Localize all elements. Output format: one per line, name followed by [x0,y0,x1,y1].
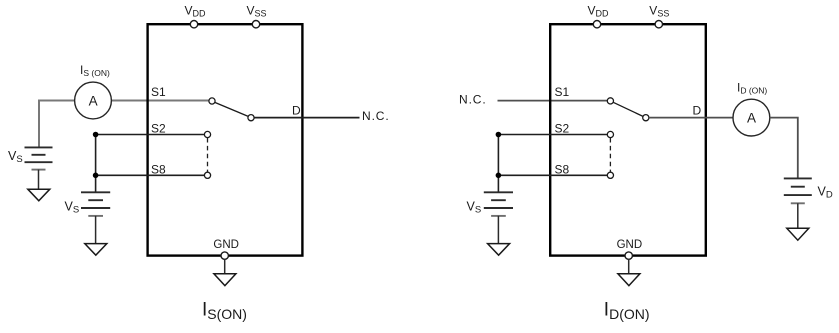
junction dot S8 (right) [496,173,502,179]
dashed link S2-S8 (left) [207,138,209,172]
pin circle S8 (right) [607,172,613,178]
wire ammeter-right to S1 switch pole [111,100,209,102]
svg-text:S1: S1 [151,85,166,99]
svg-text:D: D [292,103,301,117]
ground (below VS3) [488,244,510,256]
junction dot S2 (left) [93,132,99,138]
svg-text:S2: S2 [555,122,570,136]
svg-text:A: A [89,94,98,109]
wire S8 (left) [96,174,205,176]
pin circle S2 (right) [607,131,613,137]
wire GND pin to ground (right) [628,259,630,273]
ground (below VD) [787,228,809,240]
battery VS1 [25,147,53,189]
pin VSS (right) [655,21,662,28]
pin GND (right) [625,252,632,259]
bus wire junctions to VS2 (left) [95,135,97,193]
ground (below GND pin, left) [214,274,236,286]
pin VDD (left) [190,21,197,28]
wire ammeter-left to VS battery (left) [39,101,75,148]
svg-text:N.C.: N.C. [459,93,487,107]
switch SW2 throw circle [643,115,649,121]
battery VS2 (left) [81,192,110,243]
ground (below GND pin, right) [618,274,640,286]
pin VDD (right) [593,21,600,28]
wire GND pin to ground (left) [224,259,226,273]
wire S2 (right) [498,134,607,136]
pin circle S8 (left) [204,172,210,178]
pin GND (left) [221,252,228,259]
switch SW2 pole circle [607,98,613,104]
DUT box U1 (right) [550,24,706,255]
switch SW1 blade [215,102,248,116]
svg-text:A: A [747,111,756,126]
svg-text:S2: S2 [151,122,166,136]
svg-text:S8: S8 [151,163,166,177]
dashed link S2-S8 (right) [609,138,611,172]
junction dot S8 (left) [93,173,99,179]
wire N.C. to S1 switch pole (right) [498,100,608,102]
svg-text:S8: S8 [555,163,570,177]
ground (below VS2) [85,244,107,256]
ground (below VS1) [28,189,50,201]
wire ammeter-right to VD battery [770,118,798,179]
ammeter A2 [733,99,770,136]
switch SW1 pole circle [209,98,215,104]
svg-text:GND: GND [617,239,643,251]
switch SW1 throw circle [248,115,254,121]
ammeter A1 [75,82,112,119]
svg-text:GND: GND [213,239,239,251]
junction dot S2 (right) [496,132,502,138]
wire D to ammeter (right) [649,117,733,119]
switch SW2 blade [613,102,643,116]
wire D to N.C. (left) [254,117,359,119]
DUT box U1 (left) [148,24,303,255]
battery VS3 (right) [484,192,513,243]
bus wire junctions to VS3 (right) [497,135,499,193]
wire S8 (right) [498,174,607,176]
pin circle S2 (left) [204,131,210,137]
svg-text:N.C.: N.C. [362,109,390,123]
wire S2 (left) [96,134,205,136]
battery VD [784,178,812,228]
pin VSS (left) [252,21,259,28]
svg-text:S1: S1 [555,85,570,99]
svg-text:D: D [693,103,702,117]
